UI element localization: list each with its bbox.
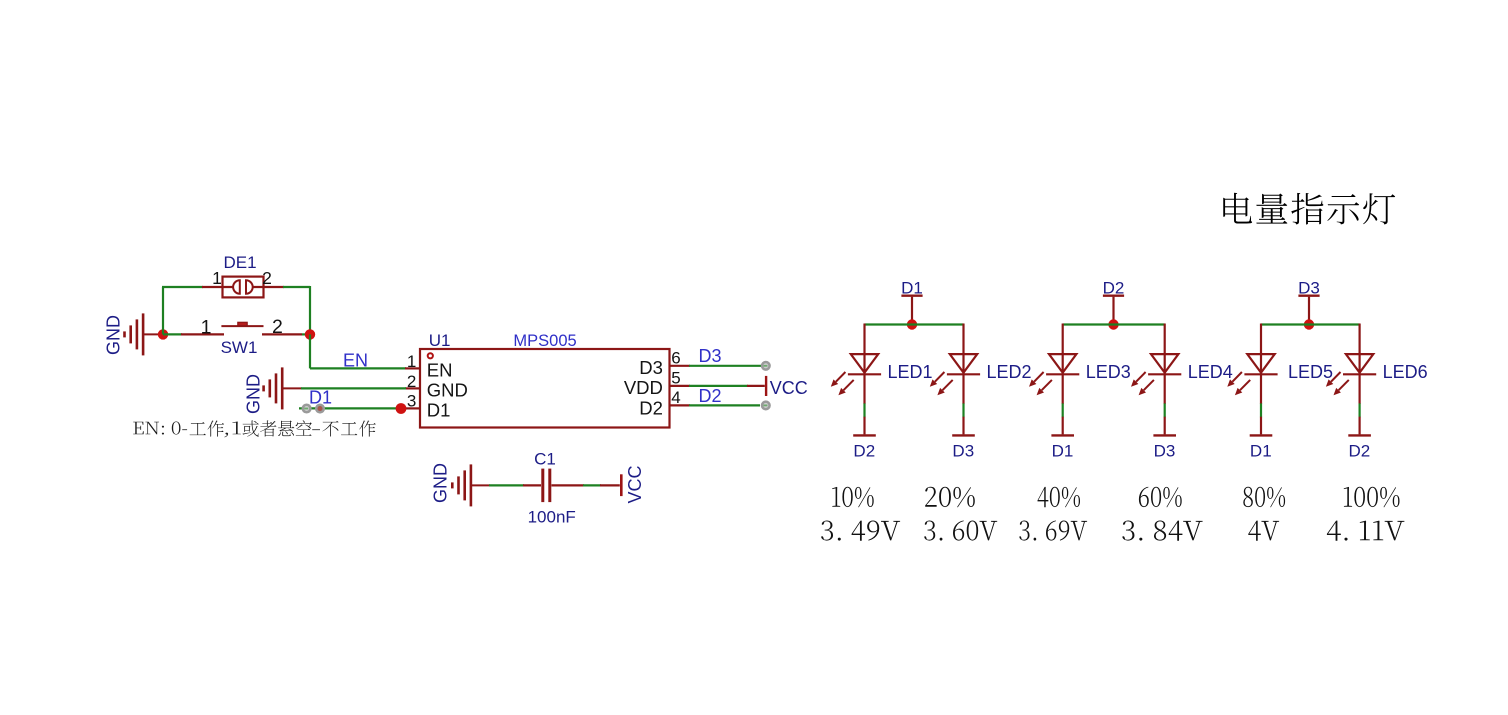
port D1 (top of LED pair)	[901, 279, 923, 325]
svg-text:6: 6	[671, 348, 680, 367]
node junction SW1 pin2	[305, 329, 315, 339]
svg-text:VCC: VCC	[625, 465, 645, 503]
wire D2 to anodes	[1063, 323, 1165, 325]
port D2 (bottom of LED6)	[1348, 435, 1371, 460]
svg-text:EN: EN	[343, 351, 368, 371]
svg-text:D3: D3	[1298, 279, 1320, 298]
wire LED6 cathode to port D2	[1358, 374, 1360, 434]
LED LED1	[831, 324, 933, 396]
svg-text:2: 2	[407, 372, 416, 391]
node junction SW1 pin1 / GND	[158, 329, 168, 339]
svg-text:5: 5	[671, 369, 680, 388]
net flag D1 to U1 pin3	[299, 388, 398, 413]
discharge element DE1	[202, 253, 284, 297]
power VCC at C1	[621, 465, 645, 503]
svg-text:VDD: VDD	[624, 377, 663, 398]
wire GND to U1 pin2	[301, 387, 406, 389]
title 电量指示灯	[1223, 193, 1395, 225]
LED LED4	[1131, 324, 1233, 396]
svg-text:SW1: SW1	[221, 338, 258, 357]
svg-text:2: 2	[272, 316, 283, 338]
node junction U1 pin3	[396, 403, 407, 414]
LED LED3	[1029, 324, 1131, 396]
svg-text:D1: D1	[309, 388, 332, 408]
value labels voltage row	[821, 521, 1404, 541]
wire LED2 cathode to port D3	[962, 374, 964, 434]
LED LED5	[1227, 324, 1333, 396]
node junction D1	[907, 319, 917, 329]
svg-text:D3: D3	[1154, 441, 1176, 460]
value labels percent row	[832, 487, 1399, 508]
LED LED2	[930, 324, 1032, 396]
svg-text:U1: U1	[429, 331, 451, 350]
svg-text:GND: GND	[244, 374, 264, 414]
svg-text:LED4: LED4	[1188, 362, 1233, 382]
svg-text:LED1: LED1	[888, 362, 933, 382]
port D3 (bottom of LED2)	[952, 435, 975, 460]
port D1 (bottom of LED5)	[1250, 435, 1273, 460]
wire LED1 cathode to port D2	[863, 374, 865, 434]
port D2 (top of LED pair)	[1103, 279, 1125, 325]
wire DE1 pin2 down to SW1 pin2	[283, 286, 310, 334]
ground GND (left of SW1)	[104, 313, 164, 355]
wire LED3 cathode to port D1	[1062, 374, 1064, 434]
svg-text:1: 1	[407, 352, 416, 371]
power VCC at U1 pin5	[689, 376, 808, 398]
svg-text:1: 1	[201, 316, 212, 338]
svg-text:100nF: 100nF	[528, 508, 576, 527]
svg-text:1: 1	[212, 268, 222, 288]
svg-text:D1: D1	[901, 279, 923, 298]
port D1 (bottom of LED3)	[1051, 435, 1074, 460]
svg-text:DE1: DE1	[223, 253, 256, 272]
svg-text:D2: D2	[1103, 279, 1125, 298]
svg-text:MPS005: MPS005	[513, 332, 576, 350]
op IC U1 MPS005	[404, 331, 690, 427]
node junction D3	[1304, 319, 1314, 329]
wire LED5 cathode to port D1	[1260, 374, 1262, 434]
note text EN usage	[133, 420, 376, 437]
wire D3 to anodes	[1261, 323, 1360, 325]
svg-text:C1: C1	[534, 450, 556, 469]
svg-text:EN: EN	[427, 360, 453, 381]
svg-text:GND: GND	[427, 380, 468, 401]
node junction D2	[1108, 319, 1118, 329]
svg-text:GND: GND	[104, 315, 124, 355]
port D2 (bottom of LED1)	[853, 435, 876, 460]
svg-text:LED2: LED2	[987, 362, 1032, 382]
wire GND junction up to DE1	[162, 287, 203, 334]
svg-text:LED6: LED6	[1383, 362, 1428, 382]
svg-text:D2: D2	[1349, 441, 1371, 460]
wire net D3 from U1 pin6	[689, 362, 770, 370]
switch SW1	[163, 316, 310, 357]
svg-text:D2: D2	[639, 397, 663, 418]
svg-text:D3: D3	[699, 346, 722, 366]
svg-text:VCC: VCC	[770, 378, 808, 398]
wire LED4 cathode to port D3	[1164, 374, 1166, 434]
svg-text:GND: GND	[431, 463, 451, 503]
svg-text:D3: D3	[639, 357, 663, 378]
svg-text:LED3: LED3	[1086, 362, 1131, 382]
wire D1 to anodes	[865, 323, 964, 325]
svg-text:4: 4	[671, 388, 680, 407]
svg-text:D2: D2	[699, 386, 722, 406]
svg-text:D1: D1	[427, 399, 451, 420]
svg-text:D1: D1	[1052, 441, 1074, 460]
wire net D2 from U1 pin4	[689, 402, 770, 410]
ground GND (U1 pin2)	[244, 367, 303, 414]
svg-text:D3: D3	[952, 441, 974, 460]
port D3 (bottom of LED4)	[1153, 435, 1176, 460]
port D3 (top of LED pair)	[1298, 279, 1320, 325]
ground GND (C1)	[431, 463, 491, 506]
capacitor C1 100nF	[489, 450, 620, 527]
svg-text:3: 3	[407, 392, 416, 411]
svg-text:D1: D1	[1250, 441, 1272, 460]
LED LED6	[1326, 324, 1428, 396]
wire net EN to U1 pin1	[310, 334, 406, 368]
svg-text:LED5: LED5	[1288, 362, 1333, 382]
svg-text:2: 2	[262, 268, 272, 288]
svg-text:D2: D2	[853, 441, 875, 460]
